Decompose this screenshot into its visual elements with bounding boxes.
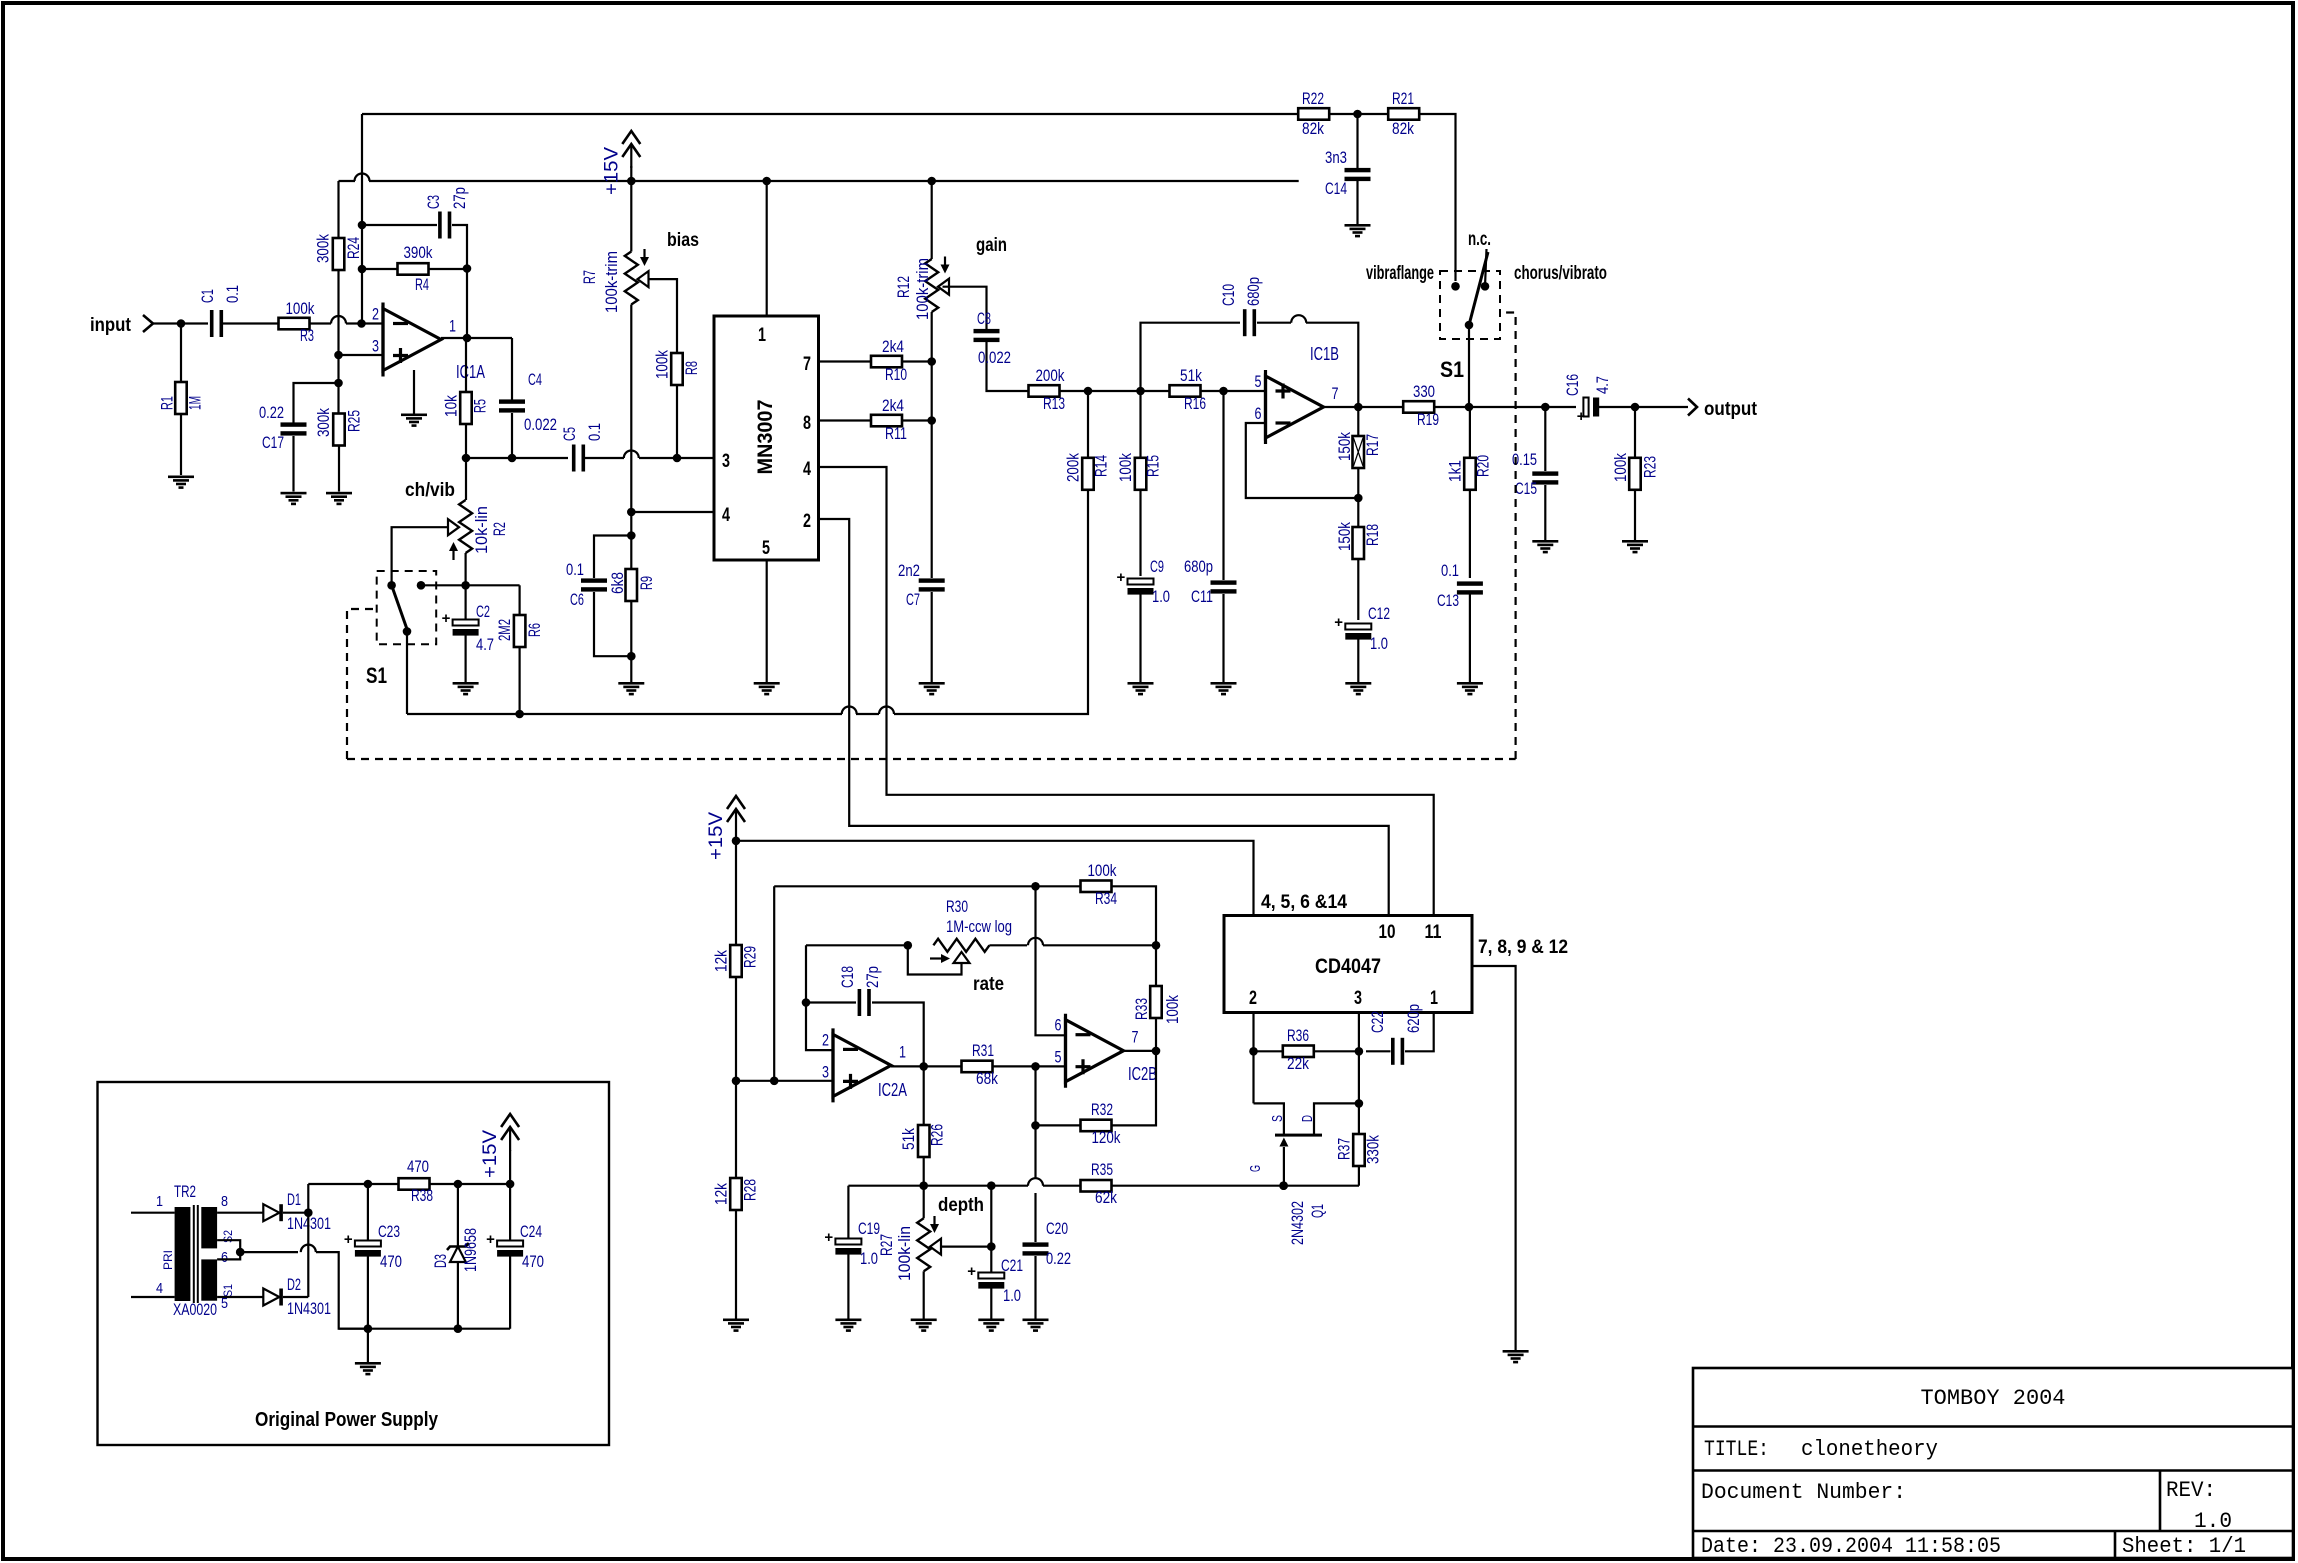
svg-text:input: input — [90, 315, 132, 336]
svg-text:3n3: 3n3 — [1325, 148, 1347, 167]
svg-text:+: + — [824, 1229, 833, 1246]
svg-text:R6: R6 — [525, 623, 544, 637]
svg-text:+15V: +15V — [601, 147, 622, 195]
svg-text:2M2: 2M2 — [495, 619, 514, 641]
svg-text:R22: R22 — [1302, 89, 1324, 108]
svg-text:R25: R25 — [345, 410, 364, 432]
trimmer R12 100k-trim gain — [894, 181, 1007, 320]
ground R28 — [723, 1319, 749, 1322]
capacitor C10 680p feedback — [1141, 277, 1359, 407]
svg-text:R8: R8 — [682, 361, 701, 375]
svg-text:0.022: 0.022 — [524, 415, 557, 434]
svg-text:100k: 100k — [1611, 453, 1630, 482]
svg-text:R5: R5 — [471, 399, 490, 413]
svg-text:10: 10 — [1379, 922, 1396, 943]
svg-text:100k: 100k — [1088, 861, 1117, 880]
svg-text:S1: S1 — [1440, 357, 1464, 382]
svg-text:R9: R9 — [637, 576, 656, 590]
svg-text:6k8: 6k8 — [608, 572, 627, 594]
svg-text:+15V: +15V — [480, 1130, 501, 1178]
svg-text:7, 8, 9 & 12: 7, 8, 9 & 12 — [1478, 937, 1568, 958]
resistor R16 51k — [1170, 366, 1266, 413]
svg-text:1.0: 1.0 — [1370, 634, 1388, 653]
svg-text:G: G — [1247, 1165, 1264, 1172]
svg-text:+: + — [967, 1263, 976, 1280]
svg-text:330k: 330k — [1364, 1135, 1383, 1164]
wire C1 to R3 — [223, 322, 278, 324]
svg-text:R31: R31 — [972, 1041, 994, 1060]
op-amp IC1B — [1255, 344, 1340, 444]
wire S1 output pole to output line — [1468, 325, 1470, 407]
wire R2 wiper to S1 input switch — [392, 527, 448, 585]
svg-text:R3: R3 — [300, 326, 314, 345]
svg-text:0.1: 0.1 — [585, 423, 604, 441]
svg-text:4.7: 4.7 — [1593, 376, 1612, 394]
svg-text:100k-trim: 100k-trim — [913, 258, 932, 320]
resistor R31 68k — [962, 1041, 1066, 1088]
svg-text:R35: R35 — [1091, 1160, 1113, 1179]
svg-text:R10: R10 — [885, 365, 907, 384]
svg-text:R7: R7 — [580, 270, 599, 284]
svg-text:680p: 680p — [1244, 277, 1263, 306]
svg-text:R14: R14 — [1091, 455, 1110, 477]
svg-text:5: 5 — [1055, 1048, 1062, 1067]
capacitor C24 470 polarized — [486, 1184, 544, 1329]
input connector — [90, 315, 181, 336]
ground power supply — [355, 1329, 381, 1376]
svg-text:MN3007: MN3007 — [754, 400, 777, 475]
svg-text:R12: R12 — [894, 276, 913, 298]
svg-text:R34: R34 — [1095, 889, 1117, 908]
capacitor C12 1.0 polarized — [1334, 604, 1390, 682]
capacitor C19 1.0 polarized — [824, 1186, 880, 1319]
svg-text:1.0: 1.0 — [860, 1249, 878, 1268]
wire S1 right contact to C2 R6 node — [421, 581, 520, 590]
svg-text:Sheet: 1/1: Sheet: 1/1 — [2122, 1534, 2246, 1559]
CD4047 pin3 lead — [1355, 1013, 1364, 1108]
svg-text:CD4047: CD4047 — [1315, 955, 1381, 978]
svg-text:R37: R37 — [1335, 1138, 1354, 1160]
capacitor C5 0.1 — [560, 423, 604, 472]
svg-text:330: 330 — [1413, 382, 1435, 401]
svg-text:2: 2 — [1249, 988, 1257, 1009]
svg-text:6: 6 — [221, 1249, 228, 1266]
feedback resistor R17 150k — [1335, 407, 1382, 527]
svg-text:R28: R28 — [741, 1179, 760, 1201]
svg-text:4: 4 — [803, 459, 811, 480]
svg-text:2k4: 2k4 — [882, 396, 904, 415]
resistor R38 470 — [364, 1157, 515, 1205]
capacitor C13 0.1 — [1437, 561, 1483, 682]
ground C11 — [1211, 682, 1237, 685]
wire R2 bottom to node — [465, 553, 467, 585]
ground C2 — [453, 682, 479, 685]
capacitor C16 4.7 polarized — [1563, 374, 1635, 425]
svg-text:6: 6 — [1255, 404, 1262, 423]
svg-text:TR2: TR2 — [174, 1182, 196, 1201]
svg-text:+: + — [486, 1231, 495, 1248]
wire C15 node to C16 — [1545, 406, 1576, 408]
wire R7 bottom to bias node — [627, 305, 636, 540]
wire IC1A output — [441, 334, 512, 343]
wire R7 wiper to R8 — [649, 279, 678, 353]
svg-text:C13: C13 — [1437, 591, 1459, 610]
resistor R4 390k — [362, 243, 467, 294]
svg-text:C22: C22 — [1368, 1011, 1387, 1033]
svg-text:R27: R27 — [877, 1234, 896, 1256]
ground C14 — [1345, 224, 1371, 227]
capacitor C11 680p — [1184, 391, 1237, 682]
svg-text:470: 470 — [522, 1252, 544, 1271]
svg-text:C17: C17 — [262, 433, 284, 452]
capacitor C7 2n2 — [898, 561, 945, 682]
svg-text:IC1B: IC1B — [1310, 344, 1339, 364]
+15V rail — [339, 174, 1299, 186]
svg-text:bias: bias — [667, 230, 699, 251]
resistor R24 300k — [314, 234, 364, 270]
capacitor C8 0.022 — [974, 309, 1029, 391]
svg-text:8: 8 — [803, 413, 811, 434]
capacitor C21 1.0 polarized — [967, 1256, 1023, 1319]
CD4047 ground lead — [1472, 966, 1529, 1363]
resistor R37 330k — [1335, 1103, 1383, 1185]
ground R1 — [168, 476, 194, 479]
wire IC2B output to R33 node — [1123, 1047, 1160, 1056]
ground C15 — [1532, 540, 1558, 543]
svg-text:C3: C3 — [424, 195, 443, 209]
capacitor C17 0.22 — [259, 403, 307, 492]
svg-text:R33: R33 — [1132, 998, 1151, 1020]
top feedback line — [362, 113, 1299, 115]
MN3007 pin7 stub and resistor R10 2k4 — [819, 337, 937, 384]
wire pin3 node down to C17 junction and R25 — [334, 355, 343, 413]
svg-text:Document Number:: Document Number: — [1701, 1480, 1906, 1505]
svg-text:1: 1 — [156, 1193, 163, 1210]
svg-text:4: 4 — [722, 505, 730, 526]
MN3007 pin1 to +15V rail — [766, 181, 768, 316]
svg-text:C10: C10 — [1219, 284, 1238, 306]
svg-text:REV:: REV: — [2166, 1478, 2216, 1503]
svg-text:C12: C12 — [1368, 604, 1390, 623]
capacitor C9 1.0 polarized — [1117, 557, 1171, 682]
svg-text:C15: C15 — [1515, 479, 1537, 498]
svg-text:C4: C4 — [528, 370, 542, 389]
resistor R19 330 — [1403, 382, 1545, 429]
svg-text:rate: rate — [973, 974, 1004, 995]
potentiometer R27 100k-lin depth — [877, 1186, 984, 1319]
wire R34 node down to IC2B pin6 — [1036, 886, 1066, 1035]
resistor R34 100k — [1031, 861, 1156, 986]
svg-text:100k: 100k — [1163, 995, 1182, 1024]
capacitor C20 0.22 — [1023, 1193, 1072, 1319]
svg-text:5: 5 — [1255, 372, 1262, 391]
power supply bottom wire — [339, 1324, 510, 1333]
svg-text:2: 2 — [803, 511, 811, 532]
svg-text:0.1: 0.1 — [223, 285, 242, 303]
svg-text:12k: 12k — [712, 950, 731, 972]
wire C5 node down to R2 — [465, 458, 467, 500]
svg-text:R1: R1 — [158, 396, 177, 410]
svg-text:R2: R2 — [490, 522, 509, 536]
svg-text:100k-lin: 100k-lin — [895, 1226, 914, 1281]
svg-text:C11: C11 — [1191, 587, 1213, 606]
wire R27 wiper to C21 — [941, 1186, 996, 1272]
svg-text:C18: C18 — [838, 966, 857, 988]
svg-text:C21: C21 — [1001, 1256, 1023, 1275]
ground C12 — [1345, 682, 1371, 685]
svg-text:680p: 680p — [1184, 557, 1213, 576]
capacitor C4 0.022 — [499, 338, 557, 458]
svg-text:+: + — [1334, 614, 1343, 631]
resistor R33 100k — [1132, 986, 1182, 1051]
wire MN3007 pin4 to CD4047 pin11 — [819, 467, 1434, 916]
svg-text:620p: 620p — [1404, 1004, 1423, 1033]
svg-text:D1: D1 — [287, 1190, 301, 1209]
svg-text:82k: 82k — [1302, 119, 1324, 138]
svg-text:1N4301: 1N4301 — [287, 1299, 331, 1318]
svg-text:0.1: 0.1 — [1441, 561, 1459, 580]
svg-text:0.22: 0.22 — [1046, 1249, 1071, 1268]
svg-text:C24: C24 — [520, 1222, 542, 1241]
svg-text:120k: 120k — [1092, 1128, 1121, 1147]
svg-text:390k: 390k — [404, 243, 433, 262]
svg-text:R30: R30 — [946, 897, 968, 916]
svg-text:82k: 82k — [1392, 119, 1414, 138]
svg-text:S: S — [1269, 1115, 1286, 1122]
svg-text:R29: R29 — [741, 946, 760, 968]
svg-text:100k: 100k — [653, 350, 672, 379]
+15V symbol main — [601, 131, 640, 195]
svg-text:R19: R19 — [1417, 410, 1439, 429]
svg-text:vibraflange: vibraflange — [1366, 263, 1434, 284]
capacitor C2 4.7 polarized — [442, 585, 494, 682]
ground R25 — [326, 492, 352, 495]
svg-text:R17: R17 — [1363, 434, 1382, 456]
svg-text:R16: R16 — [1184, 394, 1206, 413]
svg-text:1N9658: 1N9658 — [461, 1228, 480, 1272]
svg-text:11: 11 — [1425, 922, 1442, 943]
svg-text:51k: 51k — [899, 1128, 918, 1150]
wire LFO top line down to pin3 node — [773, 886, 775, 1081]
svg-text:1.0: 1.0 — [1003, 1286, 1021, 1305]
resistor R6 2M2 — [495, 585, 544, 714]
svg-text:470: 470 — [407, 1157, 429, 1176]
svg-text:+: + — [1117, 569, 1126, 586]
wire R12 bottom through R10 R11 junctions to C7 — [931, 312, 933, 578]
resistor R23 100k — [1611, 403, 1659, 540]
svg-text:7: 7 — [1132, 1028, 1139, 1047]
svg-text:C14: C14 — [1325, 179, 1347, 198]
svg-text:12k: 12k — [712, 1183, 731, 1205]
resistor R35 62k — [1081, 1160, 1360, 1207]
resistor R13 200k — [1029, 366, 1170, 413]
switch S1 input side — [366, 571, 436, 688]
svg-text:+: + — [442, 610, 451, 627]
capacitor C18 27p — [802, 966, 924, 1066]
svg-text:22k: 22k — [1287, 1054, 1309, 1073]
wire R5 C4 node to C5 — [462, 454, 568, 463]
resistor R18 150k — [1335, 522, 1382, 620]
MN3007 pin4 left stub — [631, 511, 714, 513]
wire pin3 stub to IC1A — [339, 354, 384, 356]
svg-text:2n2: 2n2 — [898, 561, 920, 580]
depth net wire — [848, 1178, 1080, 1190]
ground R9 — [618, 682, 644, 685]
svg-text:R4: R4 — [415, 275, 429, 294]
svg-text:R26: R26 — [928, 1124, 947, 1146]
svg-text:C20: C20 — [1046, 1219, 1068, 1238]
svg-text:3: 3 — [822, 1062, 829, 1081]
svg-text:10k: 10k — [442, 395, 461, 417]
svg-text:3: 3 — [372, 337, 379, 356]
resistor R1 1M — [158, 324, 205, 476]
svg-text:XA0020: XA0020 — [173, 1300, 217, 1319]
MN3007 pin8 stub and resistor R11 2k4 — [819, 396, 937, 443]
node input R1 C1 — [177, 319, 186, 328]
wire IC2A output to R31 — [891, 1062, 962, 1071]
svg-text:8: 8 — [221, 1193, 228, 1210]
svg-text:7: 7 — [1332, 384, 1339, 403]
svg-text:4.7: 4.7 — [476, 635, 494, 654]
ground C19 — [835, 1319, 861, 1322]
svg-text:R15: R15 — [1143, 455, 1162, 477]
resistor R25 300k — [314, 408, 364, 492]
svg-text:200k: 200k — [1036, 366, 1065, 385]
capacitor C22 620p — [1366, 1004, 1434, 1065]
svg-text:D2: D2 — [287, 1275, 301, 1294]
IC MN3007 body — [714, 316, 819, 560]
wire +15V rail left end to R24 — [337, 181, 339, 238]
node R28 R29 IC2A pin3 — [732, 1077, 833, 1086]
wire C17 branch — [294, 383, 339, 424]
capacitor C3 27p — [362, 187, 471, 338]
feedback vertical from top line to pin2 — [358, 114, 367, 324]
svg-text:C6: C6 — [570, 590, 584, 609]
wire input node to C1 — [181, 322, 208, 324]
svg-text:0.22: 0.22 — [259, 403, 284, 422]
svg-text:1: 1 — [758, 325, 766, 346]
capacitor C15 0.15 — [1512, 403, 1558, 540]
svg-text:7: 7 — [803, 354, 811, 375]
svg-text:IC1A: IC1A — [456, 362, 485, 382]
op-amp IC1A — [372, 303, 485, 383]
ground C17 — [281, 492, 307, 495]
svg-text:2: 2 — [372, 305, 379, 324]
svg-text:1: 1 — [1430, 988, 1438, 1009]
potentiometer R30 1M-ccw log rate — [806, 897, 1160, 995]
svg-text:C9: C9 — [1150, 557, 1164, 576]
svg-text:R11: R11 — [885, 424, 907, 443]
title block — [1693, 1368, 2293, 1559]
potentiometer R2 10k-lin ch/vib — [405, 480, 509, 560]
svg-text:1: 1 — [449, 317, 456, 336]
svg-text:5: 5 — [762, 538, 770, 559]
svg-text:R32: R32 — [1091, 1100, 1113, 1119]
wire IC1B pin6 feedback — [1246, 423, 1359, 498]
resistor R20 1k1 — [1445, 407, 1492, 578]
svg-text:100k: 100k — [1116, 453, 1135, 482]
power supply box — [98, 1082, 610, 1445]
svg-text:n.c.: n.c. — [1468, 229, 1491, 250]
svg-text:R18: R18 — [1363, 524, 1382, 546]
node R22 R21 C14 — [1329, 110, 1389, 119]
+15V symbol power supply — [480, 1114, 519, 1184]
svg-text:D: D — [1299, 1115, 1316, 1122]
svg-text:0.1: 0.1 — [566, 560, 584, 579]
svg-text:2: 2 — [822, 1030, 829, 1049]
svg-text:C2: C2 — [476, 602, 490, 621]
svg-text:R38: R38 — [411, 1186, 433, 1205]
svg-text:300k: 300k — [314, 408, 333, 437]
resistor R15 100k — [1116, 391, 1162, 576]
svg-text:R36: R36 — [1287, 1026, 1309, 1045]
capacitor C23 470 polarized — [344, 1184, 402, 1329]
svg-text:6: 6 — [1055, 1016, 1062, 1035]
IC CD4047 body — [1224, 892, 1568, 1013]
resistor R32 120k — [1031, 1051, 1156, 1178]
svg-text:2N4302: 2N4302 — [1288, 1201, 1307, 1245]
svg-text:R13: R13 — [1043, 394, 1065, 413]
svg-text:68k: 68k — [976, 1069, 998, 1088]
svg-text:C1: C1 — [198, 289, 217, 303]
svg-text:C8: C8 — [977, 309, 991, 328]
op-amp IC2A — [822, 1028, 907, 1102]
ground C9 — [1128, 682, 1154, 685]
svg-text:C7: C7 — [906, 590, 920, 609]
wire IC2A pin2 to C18 node — [806, 945, 833, 1050]
wire R21 to S1 output switch — [1419, 114, 1456, 281]
ground C20 — [1023, 1319, 1049, 1322]
svg-text:R23: R23 — [1640, 456, 1659, 478]
capacitor C6 0.1 — [566, 536, 631, 657]
svg-text:27p: 27p — [450, 187, 469, 209]
svg-text:output: output — [1704, 399, 1758, 420]
svg-text:0.022: 0.022 — [978, 348, 1011, 367]
svg-text:150k: 150k — [1335, 432, 1354, 461]
wire R3 to IC1A pin2 with hop — [310, 316, 384, 328]
svg-text:1M-ccw log: 1M-ccw log — [946, 917, 1012, 936]
svg-text:1: 1 — [899, 1042, 906, 1061]
svg-text:gain: gain — [976, 235, 1007, 256]
svg-text:3: 3 — [722, 451, 730, 472]
svg-text:C16: C16 — [1563, 374, 1582, 396]
dashed enclosure outline — [347, 313, 1516, 760]
resistor R14 200k — [1064, 391, 1111, 490]
svg-text:Original Power Supply: Original Power Supply — [255, 1409, 439, 1431]
svg-text:+: + — [1577, 408, 1586, 425]
transformer center tap wire — [217, 1240, 368, 1329]
svg-text:1M: 1M — [186, 396, 205, 410]
ground R27 — [911, 1319, 937, 1322]
svg-text:IC2B: IC2B — [1128, 1064, 1157, 1084]
svg-text:150k: 150k — [1335, 522, 1354, 551]
capacitor C1 0.1 — [198, 285, 242, 337]
transistor Q1 2N4302 JFET — [1247, 1103, 1359, 1245]
svg-text:S1: S1 — [366, 663, 387, 688]
svg-text:4, 5, 6 &14: 4, 5, 6 &14 — [1261, 892, 1347, 913]
svg-text:51k: 51k — [1180, 366, 1202, 385]
resistor R5 10k — [442, 338, 490, 458]
svg-text:PRI: PRI — [161, 1250, 175, 1270]
svg-text:TITLE:: TITLE: — [1704, 1437, 1769, 1462]
wire R12 wiper to C8 — [943, 287, 987, 329]
ground C7 — [919, 682, 945, 685]
CD4047 pin2 lead and resistor R36 22k — [1249, 1013, 1359, 1104]
svg-text:R20: R20 — [1473, 455, 1492, 477]
svg-text:100k-trim: 100k-trim — [602, 251, 621, 313]
trimmer R7 100k-trim bias — [580, 181, 699, 313]
svg-text:C23: C23 — [378, 1222, 400, 1241]
